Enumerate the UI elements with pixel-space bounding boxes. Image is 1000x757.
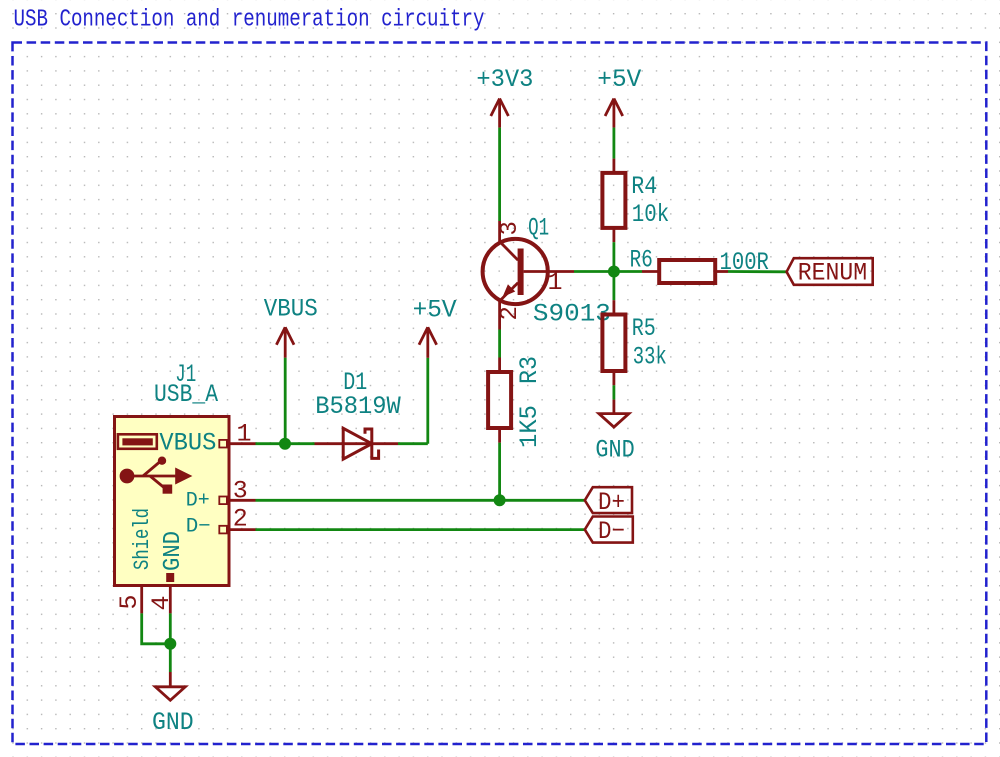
wire +5V down to R4 xyxy=(613,128,616,159)
wire junction to R6 xyxy=(614,270,642,273)
wire Q1 base to junction xyxy=(574,270,614,273)
svg-text:D−: D− xyxy=(598,517,625,546)
wire D+ from pin3 to junction xyxy=(256,499,500,502)
wire USB pin1 to junction to D1 xyxy=(256,442,286,445)
wire R4 down to base junction xyxy=(613,242,616,271)
svg-text:4: 4 xyxy=(147,595,176,610)
resistor R5 33k xyxy=(602,300,666,385)
svg-text:+3V3: +3V3 xyxy=(476,65,533,94)
svg-text:GND: GND xyxy=(152,708,194,737)
svg-text:D+: D+ xyxy=(598,488,625,517)
ground GND right xyxy=(595,400,634,465)
svg-text:+5V: +5V xyxy=(597,65,641,94)
junction base node xyxy=(608,266,620,278)
wire junction down to R5 xyxy=(613,272,616,301)
junction VBUS node xyxy=(279,438,291,450)
global label D- xyxy=(585,517,633,546)
svg-text:R6: R6 xyxy=(630,245,653,274)
wire +3V3 down to Q1 collector xyxy=(498,128,501,221)
pin 1 VBUS xyxy=(159,420,255,458)
svg-text:3: 3 xyxy=(233,477,248,506)
wire D- from pin2 to label xyxy=(256,528,585,531)
wire VBUS down to junction xyxy=(284,358,287,444)
svg-text:1: 1 xyxy=(548,268,563,297)
svg-text:USB_A: USB_A xyxy=(154,380,218,409)
transistor Q1 S9013 xyxy=(483,214,611,330)
svg-text:1K5: 1K5 xyxy=(515,405,544,448)
svg-text:S9013: S9013 xyxy=(533,300,611,329)
wire R3 down to D+ junction xyxy=(498,443,501,501)
pin 3 D+ xyxy=(186,477,256,513)
wire R5 to GND xyxy=(613,385,616,399)
ground GND bottom xyxy=(152,672,194,737)
svg-text:R5: R5 xyxy=(632,314,656,343)
svg-text:2: 2 xyxy=(233,504,248,533)
USB trident logo xyxy=(120,457,193,494)
power symbol VBUS xyxy=(276,327,294,358)
svg-text:1: 1 xyxy=(237,420,252,449)
svg-text:D−: D− xyxy=(186,516,211,539)
svg-text:VBUS: VBUS xyxy=(159,429,216,458)
svg-text:Q1: Q1 xyxy=(528,214,549,243)
svg-text:R4: R4 xyxy=(631,172,657,201)
pin 4 GND xyxy=(147,531,187,613)
power symbol +5V (right of VBUS) xyxy=(419,327,437,358)
svg-text:R3: R3 xyxy=(515,356,544,384)
svg-text:D+: D+ xyxy=(186,490,210,513)
svg-text:2: 2 xyxy=(497,306,524,320)
wire junction down to GND xyxy=(169,644,172,672)
svg-text:+5V: +5V xyxy=(413,295,457,324)
svg-text:RENUM: RENUM xyxy=(798,258,867,287)
global label D+ xyxy=(585,487,632,517)
svg-text:33k: 33k xyxy=(633,343,667,372)
svg-text:5: 5 xyxy=(115,594,144,609)
svg-text:Shield: Shield xyxy=(130,508,155,570)
USB receptacle icon xyxy=(118,434,157,449)
wire junction to D+ label xyxy=(500,499,585,502)
svg-text:USB Connection and renumeratio: USB Connection and renumeration circuitr… xyxy=(14,7,485,34)
power symbol +5V xyxy=(605,99,623,128)
resistor R4 10k xyxy=(602,159,669,243)
svg-text:GND: GND xyxy=(595,435,634,464)
resistor R3 1K5 xyxy=(488,356,544,448)
connector J1 USB_A body xyxy=(115,360,230,586)
svg-text:3: 3 xyxy=(497,221,524,235)
svg-text:VBUS: VBUS xyxy=(264,295,318,324)
global label RENUM xyxy=(787,258,873,287)
pin 2 D- xyxy=(186,504,256,538)
wire pin4 down to junction xyxy=(169,613,172,643)
resistor R6 100R xyxy=(630,245,769,283)
svg-text:10k: 10k xyxy=(632,200,669,229)
junction shield node xyxy=(164,638,176,650)
svg-text:B5819W: B5819W xyxy=(315,392,400,421)
diode D1 B5819W schottky xyxy=(315,368,401,459)
power symbol +3V3 xyxy=(491,99,509,128)
pin 5 Shield xyxy=(115,508,155,613)
wire R6 to RENUM label xyxy=(728,270,787,273)
junction D+ node xyxy=(494,494,506,506)
wire Q1 emitter down to R3 xyxy=(498,330,501,358)
svg-text:GND: GND xyxy=(160,531,187,571)
wire D1 to +5V riser xyxy=(398,442,428,445)
wire pin5 down and right to junction xyxy=(142,613,171,643)
